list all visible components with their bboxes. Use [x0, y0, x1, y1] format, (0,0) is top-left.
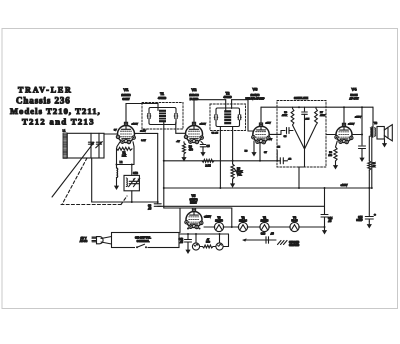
- svg-text:-7V: -7V: [269, 139, 273, 141]
- wire T2 secondary bottom: [232, 127, 234, 161]
- svg-text:+100V: +100V: [132, 124, 139, 126]
- couplate cap Cb: [304, 107, 306, 111]
- pilot lamp I1: [195, 234, 197, 243]
- wire common horizontal: [92, 201, 158, 203]
- svg-text:ON-OFF VOL: ON-OFF VOL: [135, 235, 151, 239]
- AVC line: [164, 160, 233, 162]
- filter cap C15: [365, 216, 373, 218]
- svg-text:C1B: C1B: [133, 172, 138, 175]
- svg-text:470K: 470K: [320, 115, 326, 117]
- svg-text:+105V: +105V: [348, 124, 355, 126]
- svg-text:Chassis 236: Chassis 236: [16, 96, 71, 106]
- svg-text:0.3V: 0.3V: [141, 140, 146, 142]
- svg-text:C6 .05: C6 .05: [212, 132, 219, 134]
- osc coil in box: [126, 178, 127, 187]
- speaker cone: [384, 127, 388, 130]
- speaker ground: [384, 139, 386, 142]
- svg-text:AC-DC: AC-DC: [80, 240, 88, 243]
- wire antenna common down: [91, 158, 93, 202]
- loop antenna L1: [63, 133, 67, 158]
- svg-text:TRAV-LER: TRAV-LER: [18, 86, 73, 95]
- heater V3: [214, 222, 223, 231]
- wire R1 right down: [133, 149, 135, 165]
- output transformer T3: [370, 127, 375, 137]
- svg-text:V1: V1: [124, 87, 130, 92]
- audio line extension: [233, 160, 281, 162]
- trimmer capacitor C1A: [90, 133, 92, 158]
- wire AVC stub: [276, 151, 278, 161]
- wire T2 secondary to diode: [231, 100, 233, 109]
- tube V5: [186, 212, 202, 228]
- svg-text:V2: V2: [192, 87, 198, 92]
- svg-text:12AV6: 12AV6: [215, 220, 223, 223]
- ground below C12: [187, 242, 189, 246]
- wire couplate to V4 grid: [326, 134, 336, 136]
- trimmer capacitor C2: [98, 133, 100, 158]
- ground below L2: [116, 184, 118, 186]
- B minus line: [158, 205, 325, 207]
- svg-text:T2: T2: [226, 92, 230, 96]
- heater V2: [238, 222, 247, 231]
- cap C13: [265, 237, 267, 243]
- pilot loop top: [180, 233, 229, 235]
- svg-text:GROUND: GROUND: [289, 245, 300, 247]
- svg-text:12BA6: 12BA6: [239, 220, 247, 223]
- switch S1: [135, 246, 148, 249]
- svg-text:+105V: +105V: [341, 184, 348, 187]
- svg-text:22K: 22K: [122, 155, 127, 158]
- T2 windings: [216, 108, 240, 127]
- volume control R5: [231, 164, 234, 179]
- pilot loop right: [228, 234, 230, 247]
- svg-text:455KC: 455KC: [223, 95, 231, 99]
- svg-text:RECT: RECT: [190, 202, 197, 205]
- wire V1 plate up: [125, 104, 127, 126]
- gang link dashed horizontal: [61, 204, 121, 206]
- svg-text:+: +: [374, 213, 376, 217]
- svg-text:455KC: 455KC: [158, 96, 166, 100]
- cap C14: [324, 188, 326, 215]
- ground note line: [242, 238, 247, 241]
- ground below C15: [368, 219, 370, 222]
- resistor R10: [200, 246, 203, 248]
- svg-text:+110V: +110V: [355, 117, 362, 119]
- ground V3 cathode: [253, 141, 255, 145]
- wire T2 primary B+: [219, 127, 221, 189]
- svg-text:T1: T1: [160, 92, 164, 96]
- svg-text:Models T210, T211,: Models T210, T211,: [10, 106, 101, 116]
- resistor R8 cathode: [336, 141, 338, 147]
- capacitor C11 screen: [352, 134, 362, 136]
- wire V1 cathode legs: [117, 142, 120, 147]
- tube V4: [336, 127, 352, 143]
- resistor R3 cathode: [183, 142, 185, 143]
- svg-text:DET-AVC-AF AMP: DET-AVC-AF AMP: [246, 98, 265, 101]
- tuning gang arrow: [52, 142, 94, 197]
- svg-text:CHASSIS: CHASSIS: [289, 241, 300, 244]
- couplate bottom exit: [304, 148, 306, 167]
- rectifier loop left: [179, 208, 181, 233]
- wire AVC vertical: [163, 122, 165, 208]
- wire V3 diode load: [259, 143, 261, 161]
- wire osc horizontal: [117, 164, 135, 166]
- heater V1: [260, 222, 269, 231]
- rectifier loop top: [164, 207, 232, 209]
- ground below R5: [232, 179, 234, 183]
- svg-text:AF OUT: AF OUT: [349, 98, 359, 101]
- wire V2 plate up: [193, 100, 195, 126]
- svg-text:C13: C13: [261, 233, 266, 236]
- couplate cap C9: [281, 130, 285, 132]
- wire T1 core top: [157, 104, 159, 111]
- tube V3: [253, 126, 269, 142]
- couplate box: [277, 101, 326, 168]
- wire T1 secondary to V2 grid: [175, 122, 177, 133]
- wire trimmer box bottom: [131, 191, 133, 202]
- svg-text:COUPLATE: COUPLATE: [294, 96, 308, 100]
- svg-text:12BA6: 12BA6: [189, 93, 199, 97]
- wire R1 left down: [116, 149, 118, 165]
- svg-text:CONTROL: CONTROL: [137, 239, 150, 243]
- wire T3 bottom down: [368, 136, 370, 161]
- wire trimmer box top: [131, 165, 133, 176]
- gang link dashed diagonal: [62, 158, 87, 205]
- IF transformer T1 box: [142, 103, 183, 130]
- svg-text:470K: 470K: [282, 115, 288, 117]
- T1 windings: [149, 108, 176, 125]
- cap C12: [187, 234, 189, 240]
- speaker frame: [377, 127, 384, 140]
- top rail +100V: [261, 106, 373, 108]
- couplate diagonals: [293, 125, 305, 148]
- on-off volume box: [112, 233, 180, 248]
- svg-text:30MF: 30MF: [356, 219, 363, 222]
- svg-text:+100V: +100V: [200, 124, 207, 126]
- ground below R3: [183, 154, 185, 157]
- screen line V1: [134, 132, 157, 134]
- IF transformer T2 box: [210, 104, 246, 131]
- wire grid V1: [104, 133, 118, 135]
- svg-text:12BE6: 12BE6: [121, 93, 131, 97]
- heater line: [204, 226, 214, 228]
- svg-text:50C5: 50C5: [350, 93, 358, 97]
- interlock slashes: [278, 241, 282, 245]
- svg-text:12AV6: 12AV6: [251, 93, 260, 97]
- power plug: [92, 236, 97, 238]
- resistor R9: [368, 161, 371, 170]
- gang link dashed to osc: [121, 196, 127, 205]
- rectifier loop right: [231, 208, 233, 227]
- svg-text:+85V: +85V: [266, 123, 272, 125]
- tube V2: [186, 126, 203, 143]
- tube V1: [118, 126, 135, 143]
- wire R9 to filter: [368, 170, 370, 217]
- svg-text:+1.5V: +1.5V: [140, 131, 146, 133]
- trimmer C2B: [134, 180, 139, 182]
- capacitor C8: [154, 203, 161, 205]
- pilot lamp I2: [219, 234, 221, 243]
- heater V4: [290, 222, 299, 231]
- couplate resistor Rc: [315, 107, 317, 108]
- svg-text:VOL: VOL: [237, 174, 242, 177]
- wire T2 core top: [225, 100, 227, 111]
- couplate resistor Ra: [292, 107, 294, 108]
- wire rail down to T3: [372, 107, 374, 128]
- svg-text:+125V: +125V: [204, 216, 211, 219]
- ground at heater end: [324, 227, 326, 230]
- coil L2: [116, 165, 118, 169]
- wire V4 plate to rail: [343, 107, 345, 126]
- oscillator trimmer box: [124, 175, 139, 190]
- svg-text:12BE6: 12BE6: [261, 220, 269, 223]
- wire B+ up to T3: [371, 136, 373, 188]
- svg-text:T212 and T213: T212 and T213: [22, 117, 95, 127]
- svg-text:V3: V3: [253, 87, 259, 92]
- svg-text:50C5: 50C5: [292, 220, 299, 223]
- svg-text:470: 470: [189, 149, 194, 152]
- trimmer C1B: [129, 180, 134, 182]
- svg-text:2.2M: 2.2M: [205, 165, 210, 168]
- cap C5 screen: [201, 142, 203, 144]
- svg-text:V4: V4: [352, 87, 358, 92]
- wire V3 plate up: [260, 107, 262, 124]
- svg-text:-1V: -1V: [176, 141, 180, 143]
- antenna tuning box: [67, 133, 104, 158]
- coupling cap C7: [279, 158, 281, 164]
- svg-text:CONV: CONV: [122, 98, 130, 101]
- B+ line: [164, 187, 372, 189]
- resistor R4 AVC: [202, 159, 214, 162]
- resistor R1: [117, 147, 133, 150]
- ground below R8: [335, 161, 337, 165]
- couplate left entry: [270, 133, 281, 135]
